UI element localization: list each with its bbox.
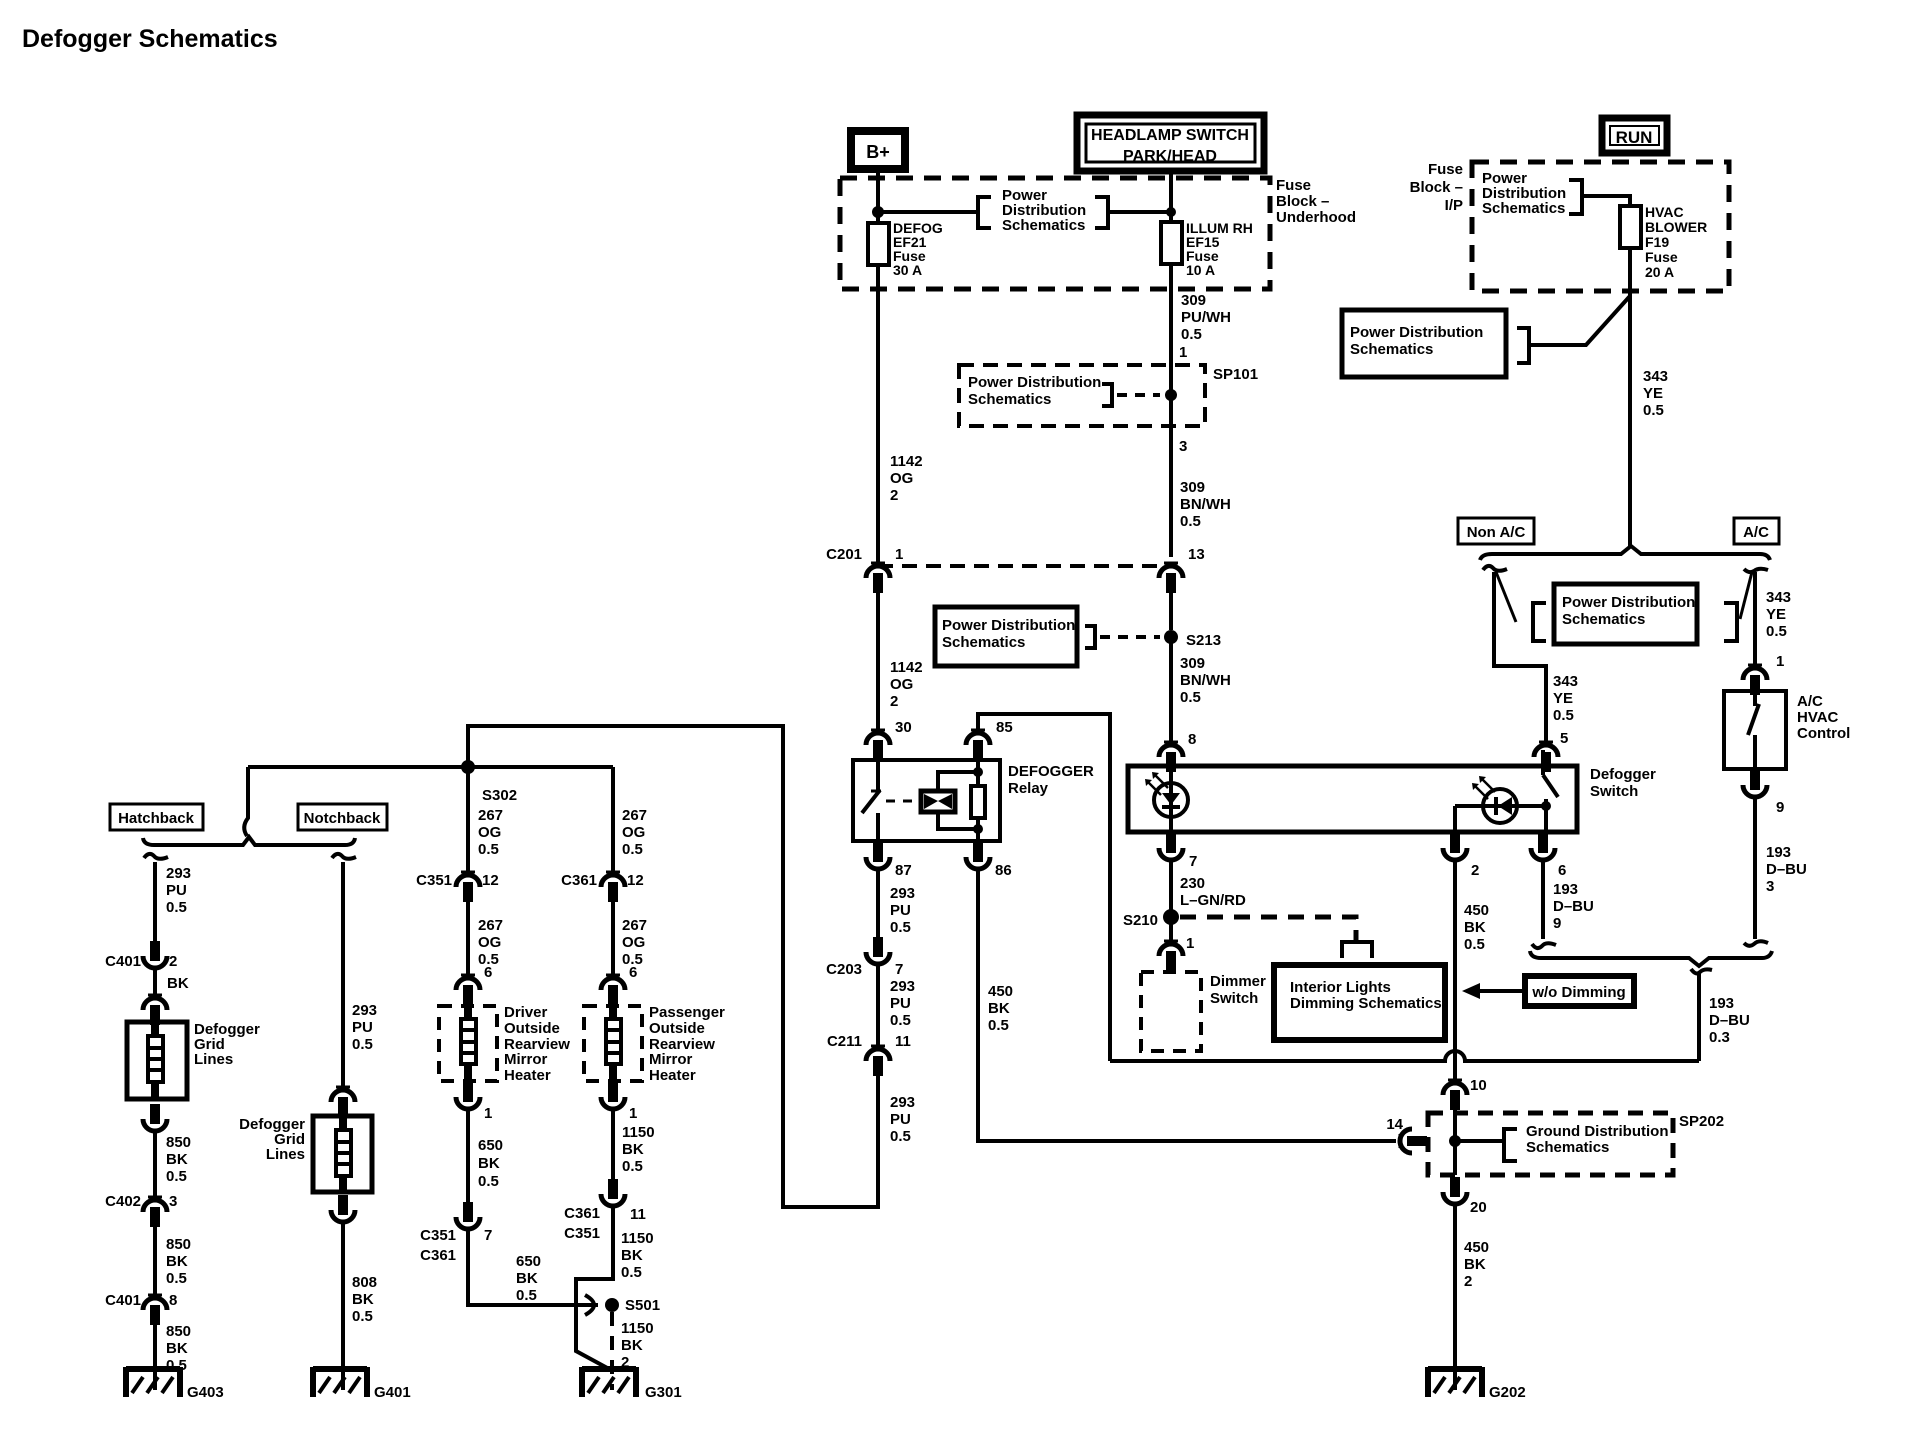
- svg-text:0.5: 0.5: [1464, 936, 1485, 953]
- svg-text:Control: Control: [1797, 725, 1850, 742]
- svg-text:BK: BK: [478, 1155, 500, 1172]
- svg-text:9: 9: [1553, 915, 1561, 932]
- hook pin9 into merge: [1744, 941, 1768, 946]
- switch blade and contact: [1541, 750, 1558, 832]
- svg-text:OG: OG: [622, 824, 645, 841]
- svg-text:Schematics: Schematics: [1350, 341, 1433, 358]
- svg-text:C351: C351: [420, 1227, 456, 1244]
- label Fuse Block - I/P: [1410, 161, 1463, 214]
- connector relay pin 85: [966, 719, 1013, 760]
- label Defogger Grid Lines (hatch): [194, 1021, 260, 1068]
- svg-text:1142: 1142: [890, 453, 923, 470]
- connector relay pin 30: [866, 719, 912, 760]
- indicator LED left (illumination): [1145, 766, 1188, 832]
- wire label 808 BK 0.5: [352, 1274, 377, 1325]
- box Defogger Grid Lines (hatch): [127, 1022, 187, 1099]
- svg-text:BK: BK: [167, 975, 189, 992]
- switch inside A/C HVAC Control: [1748, 691, 1759, 769]
- svg-text:5: 5: [1560, 730, 1568, 747]
- fuse F19 HVAC BLOWER 20A: [1620, 204, 1707, 280]
- wire label 1150 BK 0.5 (a): [622, 1124, 655, 1175]
- svg-text:S210: S210: [1123, 912, 1158, 929]
- node SP101 splice dot: [1165, 389, 1177, 401]
- hook Non A/C branch: [1483, 566, 1507, 571]
- svg-text:808: 808: [352, 1274, 377, 1291]
- label SP101: [1213, 366, 1258, 383]
- svg-text:I/P: I/P: [1445, 197, 1463, 214]
- svg-text:C211: C211: [827, 1033, 862, 1050]
- connector passenger mirror pin 6: [601, 964, 637, 1005]
- svg-text:HEADLAMP SWITCH: HEADLAMP SWITCH: [1091, 127, 1249, 144]
- svg-text:2: 2: [890, 693, 898, 710]
- svg-text:Lines: Lines: [266, 1146, 305, 1163]
- svg-text:C402: C402: [105, 1193, 141, 1210]
- ground G301: [582, 1367, 682, 1401]
- svg-text:PU: PU: [890, 995, 911, 1012]
- relay DEFOGGER box: [853, 760, 1000, 841]
- svg-text:0.5: 0.5: [890, 1128, 911, 1145]
- svg-text:309: 309: [1180, 479, 1205, 496]
- svg-text:2: 2: [1464, 1273, 1472, 1290]
- svg-text:G401: G401: [374, 1384, 411, 1401]
- wire relay 86 to pin 14: [978, 868, 1396, 1141]
- svg-text:YE: YE: [1766, 606, 1786, 623]
- svg-text:0.5: 0.5: [890, 919, 911, 936]
- label Power Distribution Schematics (underhood): [1002, 187, 1086, 234]
- svg-text:BK: BK: [622, 1141, 644, 1158]
- power node B+: [851, 131, 905, 169]
- svg-text:C361: C361: [561, 872, 597, 889]
- box Defogger Switch: [1128, 766, 1577, 832]
- svg-text:Heater: Heater: [649, 1067, 696, 1084]
- ground G403: [126, 1367, 224, 1401]
- wire S302 to C351-12: [466, 767, 470, 875]
- svg-text:0.3: 0.3: [1709, 1029, 1730, 1046]
- wire relay 87 to C203: [876, 868, 880, 952]
- svg-text:G301: G301: [645, 1384, 682, 1401]
- bracket I/P: [1569, 180, 1582, 214]
- wire bracket diagonal to run wire: [1529, 296, 1630, 345]
- svg-text:Hatchback: Hatchback: [118, 810, 195, 827]
- svg-text:0.5: 0.5: [1180, 513, 1201, 530]
- svg-text:0.5: 0.5: [166, 899, 187, 916]
- svg-text:14: 14: [1386, 1116, 1403, 1133]
- wire label 309 PU/WH 0.5 pin 1: [1179, 292, 1231, 361]
- connector driver mirror pin 1: [456, 1082, 492, 1122]
- relay switch contact: [862, 760, 881, 841]
- svg-text:650: 650: [478, 1137, 503, 1154]
- svg-text:BK: BK: [1464, 919, 1486, 936]
- fork into S501: [585, 1295, 594, 1315]
- svg-text:10 A: 10 A: [1186, 262, 1215, 278]
- node S501 splice: [605, 1297, 660, 1314]
- svg-text:0.5: 0.5: [1180, 689, 1201, 706]
- svg-text:267: 267: [478, 807, 503, 824]
- connector C201 pin 13: [1159, 546, 1205, 593]
- wire label 650 BK 0.5 (b): [516, 1253, 541, 1304]
- svg-text:6: 6: [484, 964, 492, 981]
- wire pin 2 down to SP202: [1453, 859, 1457, 1083]
- connector grid lines bottom: [143, 1104, 167, 1131]
- label Dimmer Switch: [1210, 973, 1266, 1007]
- svg-text:450: 450: [1464, 1239, 1489, 1256]
- diagonal to PDS box (left): [1496, 572, 1516, 622]
- tag box Hatchback: [110, 804, 203, 830]
- label Fuse Block - Underhood: [1276, 177, 1356, 226]
- connector switch pin 5: [1534, 742, 1558, 772]
- wire label 450 BK 2: [1464, 1239, 1489, 1290]
- connector C361 pin 12: [561, 872, 644, 902]
- svg-text:12: 12: [482, 872, 499, 889]
- svg-text:2: 2: [890, 487, 898, 504]
- bracket S213: [1085, 626, 1095, 648]
- wire grid to C402: [153, 1130, 157, 1200]
- svg-text:0.5: 0.5: [622, 841, 643, 858]
- svg-text:Switch: Switch: [1210, 990, 1258, 1007]
- svg-text:OG: OG: [890, 676, 913, 693]
- svg-text:C361: C361: [420, 1247, 456, 1264]
- junction on B+ wire: [872, 206, 884, 218]
- connector switch pin 7: [1159, 833, 1197, 870]
- svg-text:293: 293: [890, 1094, 915, 1111]
- svg-text:BLOWER: BLOWER: [1645, 219, 1707, 235]
- svg-text:193: 193: [1766, 844, 1791, 861]
- label Passenger Outside Rearview Mirror Heater: [649, 1004, 725, 1084]
- wire label 450 BK 0.5 (switch): [1464, 902, 1489, 953]
- svg-text:Power Distribution: Power Distribution: [942, 617, 1075, 634]
- wire label 850 BK 0.5 (b): [166, 1236, 191, 1287]
- box Power Distribution Schematics (non ac): [1554, 584, 1697, 644]
- bracket interior lights: [1342, 942, 1372, 958]
- wire C401 to grid box: [153, 967, 157, 998]
- svg-text:Heater: Heater: [504, 1067, 551, 1084]
- svg-text:450: 450: [1464, 902, 1489, 919]
- connector C211 pin 11: [827, 1033, 911, 1076]
- tag box Notchback: [298, 804, 387, 830]
- svg-text:7: 7: [1189, 853, 1197, 870]
- svg-text:87: 87: [895, 862, 912, 879]
- svg-text:Fuse: Fuse: [1645, 249, 1678, 265]
- svg-text:Schematics: Schematics: [1526, 1139, 1609, 1156]
- wire S213 to switch pin 8: [1169, 637, 1173, 745]
- fuse EF21 DEFOG 30A: [868, 220, 943, 278]
- node S210 splice: [1123, 909, 1179, 929]
- svg-text:0.5: 0.5: [1553, 707, 1574, 724]
- svg-text:267: 267: [622, 917, 647, 934]
- wire label 850 BK 0.5 (a): [166, 1134, 191, 1185]
- connector grid lines top (notch): [331, 1087, 355, 1117]
- ground G202: [1428, 1367, 1526, 1401]
- bracket ground distribution: [1504, 1129, 1517, 1161]
- svg-text:1150: 1150: [621, 1230, 654, 1247]
- tag box Non A/C: [1458, 518, 1534, 544]
- connector line C201 (dashed): [878, 564, 1171, 568]
- wire label 1150 BK 0.5 (b): [621, 1230, 654, 1281]
- svg-text:BK: BK: [621, 1337, 643, 1354]
- svg-text:0.5: 0.5: [352, 1308, 373, 1325]
- wire label 650 BK 0.5 (a): [478, 1137, 503, 1190]
- wire driver mirror to C351-7: [466, 1109, 470, 1202]
- svg-text:3: 3: [1179, 438, 1187, 455]
- relay coil bottom wire: [938, 812, 983, 834]
- svg-text:1150: 1150: [621, 1320, 654, 1337]
- svg-text:OG: OG: [478, 824, 501, 841]
- relay coil top wire: [938, 767, 983, 791]
- svg-text:3: 3: [1766, 878, 1774, 895]
- svg-text:850: 850: [166, 1323, 191, 1340]
- wire C201-13 to S213: [1169, 592, 1173, 630]
- svg-text:0.5: 0.5: [516, 1287, 537, 1304]
- bracket left (power distribution): [978, 197, 991, 228]
- svg-text:Driver: Driver: [504, 1004, 548, 1021]
- svg-text:C361: C361: [564, 1205, 600, 1222]
- svg-text:Underhood: Underhood: [1276, 209, 1356, 226]
- svg-text:309: 309: [1180, 655, 1205, 672]
- box HEADLAMP SWITCH PARK/HEAD: [1077, 115, 1264, 171]
- svg-text:1: 1: [1186, 935, 1194, 952]
- connector dimmer pin 1: [1159, 935, 1194, 971]
- wire label 293 PU 0.5 (b): [890, 978, 915, 1029]
- node SP202 junction: [1449, 1135, 1461, 1147]
- element grid lines (notch): [336, 1116, 351, 1192]
- wire label 267 OG 0.5 (driver b): [478, 917, 503, 968]
- svg-text:8: 8: [1188, 731, 1196, 748]
- svg-text:Power Distribution: Power Distribution: [1562, 594, 1695, 611]
- splice box SP101 (dashed): [959, 365, 1205, 426]
- wire label 193 D-BU 3: [1766, 844, 1807, 895]
- svg-text:0.5: 0.5: [352, 1036, 373, 1053]
- svg-text:Power Distribution: Power Distribution: [968, 374, 1101, 391]
- wire headlamp switch to fuse EF15: [1169, 171, 1173, 222]
- box Defogger Grid Lines (notch): [313, 1116, 372, 1192]
- dashed link to S213: [1100, 635, 1160, 639]
- wire C211 down and across to S302 feed: [468, 726, 878, 1207]
- svg-text:11: 11: [630, 1206, 646, 1223]
- box Power Distribution Schematics (run feed): [1342, 310, 1506, 377]
- svg-text:293: 293: [166, 865, 191, 882]
- svg-text:HVAC: HVAC: [1645, 204, 1684, 220]
- svg-text:2: 2: [169, 953, 177, 970]
- connector SP202 pin 20: [1443, 1177, 1487, 1216]
- svg-text:Mirror: Mirror: [649, 1051, 693, 1068]
- title: [22, 25, 278, 53]
- wire C351-7 to S501: [468, 1229, 598, 1305]
- wire label 193 D-BU 0.3: [1709, 995, 1750, 1046]
- wire relay85 feed from 193DBU merge: [978, 714, 1110, 1061]
- bracket SP101: [1102, 384, 1112, 406]
- svg-text:10: 10: [1470, 1077, 1487, 1094]
- svg-text:Block –: Block –: [1276, 193, 1329, 210]
- wire label 293 PU 0.5 (c): [890, 1094, 915, 1145]
- svg-text:BK: BK: [516, 1270, 538, 1287]
- wire label 267 OG 0.5 (driver a): [478, 807, 503, 858]
- node S213 splice: [1164, 630, 1221, 649]
- svg-text:Schematics: Schematics: [1562, 611, 1645, 628]
- svg-text:F19: F19: [1645, 234, 1669, 250]
- svg-text:BK: BK: [1464, 1256, 1486, 1273]
- connector grid lines bottom (notch): [331, 1195, 355, 1222]
- svg-text:YE: YE: [1553, 690, 1573, 707]
- svg-text:Power Distribution: Power Distribution: [1350, 324, 1483, 341]
- wire label 267 OG 0.5 (pass a): [622, 807, 647, 858]
- svg-text:293: 293: [890, 885, 915, 902]
- wire S302 left drop: [244, 767, 248, 836]
- svg-text:Non A/C: Non A/C: [1467, 524, 1526, 541]
- wire AC pin 9 down: [1753, 796, 1757, 939]
- svg-text:Fuse: Fuse: [1428, 161, 1463, 178]
- label Ground Distribution Schematics: [1526, 1123, 1668, 1156]
- connector driver mirror pin 6: [456, 964, 492, 1005]
- svg-text:PU: PU: [352, 1019, 373, 1036]
- wire label 193 D-BU 9: [1553, 881, 1594, 932]
- label Interior Lights Dimming Schematics: [1290, 979, 1442, 1012]
- bracket run feed: [1517, 328, 1529, 363]
- connector switch pin 2: [1443, 833, 1479, 879]
- indicator LED right (on indicator): [1455, 776, 1543, 832]
- svg-text:G403: G403: [187, 1384, 224, 1401]
- svg-text:Outside: Outside: [504, 1020, 560, 1037]
- wire label 267 OG 0.5 (pass b): [622, 917, 647, 968]
- svg-text:30 A: 30 A: [893, 262, 922, 278]
- brace split Non A/C | A/C: [1480, 546, 1770, 560]
- connector C361 pin 11: [564, 1179, 646, 1242]
- pin label 3: [1179, 438, 1187, 455]
- svg-text:G202: G202: [1489, 1384, 1526, 1401]
- connector relay pin 87: [866, 842, 912, 879]
- wire through SP202: [1453, 1108, 1457, 1175]
- label Power Distribution Schematics (S213): [942, 617, 1075, 651]
- label C201: [826, 546, 862, 563]
- svg-text:1: 1: [895, 546, 903, 563]
- connector switch pin 8: [1159, 742, 1183, 772]
- wire label 293 PU 0.5 (hatch): [166, 865, 191, 916]
- box Passenger Outside Rearview Mirror Heater (dashed): [584, 1006, 642, 1081]
- connector C401 pin 8: [105, 1292, 177, 1325]
- svg-text:650: 650: [516, 1253, 541, 1270]
- svg-text:S213: S213: [1186, 632, 1221, 649]
- svg-text:BK: BK: [166, 1151, 188, 1168]
- svg-text:C201: C201: [826, 546, 862, 563]
- ground G401: [313, 1367, 411, 1401]
- svg-text:Mirror: Mirror: [504, 1051, 548, 1068]
- label Defogger Switch: [1590, 766, 1656, 800]
- wire label 850 BK 0.5 (c): [166, 1323, 191, 1374]
- svg-text:YE: YE: [1643, 385, 1663, 402]
- wire C401-8 to G403: [153, 1325, 157, 1390]
- svg-text:1150: 1150: [622, 1124, 655, 1141]
- svg-text:230: 230: [1180, 875, 1205, 892]
- svg-text:C351: C351: [416, 872, 452, 889]
- hook below merge: [1691, 969, 1712, 973]
- svg-text:193: 193: [1553, 881, 1578, 898]
- hook hatchback branch: [144, 854, 168, 859]
- svg-text:309: 309: [1181, 292, 1206, 309]
- bracket non-ac right: [1724, 603, 1737, 641]
- wire pin 6 down: [1541, 859, 1545, 939]
- connector C203 pin 7: [826, 937, 903, 978]
- wire label 293 PU 0.5 (notch): [352, 1002, 377, 1053]
- svg-text:1: 1: [1179, 344, 1187, 361]
- wire label 343 YE 0.5 (switch): [1553, 673, 1578, 747]
- svg-text:Schematics: Schematics: [1482, 200, 1565, 217]
- wire label 1150 BK 2: [621, 1320, 654, 1371]
- svg-text:Interior Lights: Interior Lights: [1290, 979, 1391, 996]
- svg-text:BK: BK: [988, 1000, 1010, 1017]
- svg-text:Defogger: Defogger: [1590, 766, 1656, 783]
- relay dashed actuate link: [886, 800, 918, 803]
- wire S210 to dimmer switch: [1169, 924, 1173, 944]
- wire Non A/C branch: [1494, 572, 1546, 745]
- svg-text:343: 343: [1553, 673, 1578, 690]
- svg-text:1: 1: [484, 1105, 492, 1122]
- wire label 1142 OG 2 (upper): [890, 453, 923, 504]
- svg-text:L–GN/RD: L–GN/RD: [1180, 892, 1246, 909]
- svg-text:7: 7: [484, 1227, 492, 1244]
- svg-text:3: 3: [169, 1193, 177, 1210]
- wire pin 7 to S210: [1169, 859, 1173, 911]
- svg-text:Schematics: Schematics: [1002, 217, 1085, 234]
- svg-text:B+: B+: [866, 142, 890, 162]
- svg-text:9: 9: [1776, 799, 1784, 816]
- connector grid lines top: [143, 995, 167, 1025]
- svg-text:Block –: Block –: [1410, 179, 1463, 196]
- box Dimmer Switch (dashed): [1141, 972, 1201, 1051]
- svg-text:SP101: SP101: [1213, 366, 1258, 383]
- wire label 293 PU 0.5 (a): [890, 885, 915, 936]
- box Driver Outside Rearview Mirror Heater (dashed): [439, 1006, 497, 1081]
- connector C402 pin 3: [105, 1193, 177, 1227]
- svg-text:1: 1: [629, 1105, 637, 1122]
- svg-text:Schematics: Schematics: [968, 391, 1051, 408]
- svg-text:11: 11: [895, 1033, 911, 1050]
- hook pin6 into merge: [1532, 943, 1556, 948]
- svg-text:A/C: A/C: [1743, 524, 1769, 541]
- connector switch pin 6: [1531, 833, 1566, 879]
- power node RUN: [1602, 118, 1667, 153]
- box A/C HVAC Control: [1724, 691, 1786, 769]
- svg-text:193: 193: [1709, 995, 1734, 1012]
- tag box A/C: [1734, 518, 1779, 544]
- svg-text:w/o Dimming: w/o Dimming: [1531, 984, 1625, 1001]
- wire S302 to C361-12: [611, 767, 615, 875]
- svg-text:PARK/HEAD: PARK/HEAD: [1123, 148, 1217, 165]
- svg-text:1142: 1142: [890, 659, 923, 676]
- svg-text:OG: OG: [478, 934, 501, 951]
- diagonal to PDS box (right): [1740, 572, 1752, 619]
- label Defogger Grid Lines (notch): [239, 1116, 305, 1163]
- svg-text:0.5: 0.5: [621, 1264, 642, 1281]
- fuse block underhood (dashed box): [840, 178, 1270, 289]
- svg-text:C351: C351: [564, 1225, 600, 1242]
- wire SP202 to G202: [1453, 1203, 1457, 1390]
- svg-text:Dimming Schematics: Dimming Schematics: [1290, 995, 1442, 1012]
- label Power Distribution Schematics (I/P): [1482, 170, 1566, 217]
- wire grid notch to G401: [341, 1222, 345, 1390]
- wire fuse EF21 down to C201: [876, 265, 880, 566]
- wire label 309 BN/WH 0.5 (lower): [1180, 655, 1231, 748]
- wire label 1142 OG 2 (lower): [890, 659, 923, 710]
- wire relay85 horizontal with hop: [1110, 1051, 1699, 1061]
- label Power Distribution Schematics (SP101): [968, 374, 1101, 408]
- wire bracket to fuse F19: [1582, 196, 1630, 206]
- svg-text:BN/WH: BN/WH: [1180, 672, 1231, 689]
- svg-text:Schematics: Schematics: [942, 634, 1025, 651]
- svg-text:D–BU: D–BU: [1709, 1012, 1750, 1029]
- svg-text:20: 20: [1470, 1199, 1487, 1216]
- svg-text:1: 1: [1776, 653, 1784, 670]
- relay coil: [921, 791, 955, 812]
- box Interior Lights Dimming Schematics: [1274, 965, 1445, 1040]
